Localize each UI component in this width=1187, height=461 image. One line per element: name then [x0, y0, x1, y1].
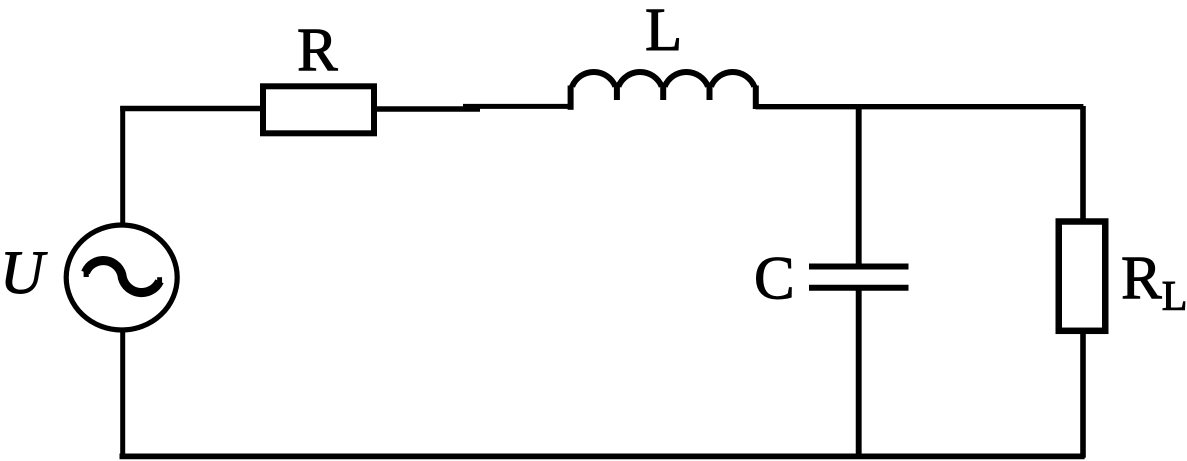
capacitor C bottom stub wire	[856, 288, 862, 457]
wire right vertical lower	[1080, 331, 1086, 458]
resistor R (box)	[263, 86, 374, 133]
capacitor C top stub wire	[856, 104, 862, 267]
svg-text:R: R	[297, 17, 338, 84]
wire bottom horizontal	[120, 454, 1085, 460]
capacitor C top plate	[809, 264, 909, 270]
capacitor C bottom plate	[809, 285, 909, 291]
inductor L right step	[753, 86, 759, 110]
inductor L left step	[568, 86, 574, 110]
sine wave right terminal	[157, 277, 162, 285]
wire top-left horizontal	[120, 106, 263, 111]
inductor L coil 3	[665, 72, 708, 87]
wire resistor to inductor (lower segment)	[374, 106, 480, 112]
wire inductor to top-right corner	[756, 104, 1084, 109]
wire right vertical upper	[1080, 106, 1086, 222]
svg-text:U: U	[0, 240, 48, 307]
sine wave inside source	[86, 261, 160, 293]
svg-text:L: L	[645, 0, 682, 64]
inductor L valley bar 1	[614, 86, 620, 101]
wire left vertical upper	[120, 106, 125, 224]
AC source U (circle)	[66, 225, 177, 330]
sine wave left terminal	[84, 269, 89, 277]
load resistor RL (box)	[1059, 222, 1106, 331]
wire left vertical lower	[120, 330, 125, 458]
svg-text:RL: RL	[1121, 245, 1187, 320]
inductor L coil 2	[618, 72, 661, 87]
inductor L valley bar 2	[660, 86, 666, 101]
wire resistor to inductor (upper segment)	[463, 104, 570, 109]
inductor L coil 4	[711, 72, 754, 87]
inductor L valley bar 3	[707, 86, 713, 101]
svg-text:C: C	[754, 246, 795, 313]
inductor L coil 1	[572, 72, 615, 87]
